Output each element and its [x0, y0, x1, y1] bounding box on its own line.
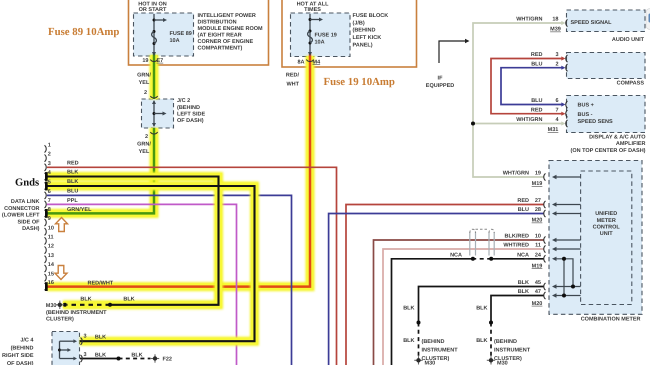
svg-text:PANEL): PANEL)	[353, 42, 373, 48]
svg-text:6: 6	[48, 189, 51, 195]
svg-text:OR START: OR START	[139, 7, 167, 13]
svg-text:(J/B): (J/B)	[353, 20, 365, 26]
svg-text:LEFT KICK: LEFT KICK	[353, 35, 382, 41]
svg-text:TIMES: TIMES	[304, 7, 321, 13]
svg-text:BLU: BLU	[67, 189, 78, 195]
ground M30 pin45	[414, 356, 422, 364]
svg-text:GRN/: GRN/	[137, 141, 151, 147]
svg-text:BLK: BLK	[80, 296, 91, 302]
display & A/C auto amplifier box	[567, 96, 646, 133]
wire WHT/GRN audio/speed-sens/meter pin19	[473, 23, 563, 177]
svg-text:3: 3	[83, 352, 86, 358]
svg-text:8: 8	[48, 207, 51, 213]
svg-text:28: 28	[535, 207, 541, 213]
svg-text:3: 3	[83, 333, 86, 339]
svg-text:BLK: BLK	[95, 353, 106, 359]
svg-text:WHT/GRN: WHT/GRN	[516, 17, 542, 23]
svg-text:M30: M30	[497, 360, 508, 365]
wire RED meter pin27	[346, 205, 544, 365]
svg-text:BLK: BLK	[67, 170, 78, 176]
svg-text:CLUSTER): CLUSTER)	[46, 317, 74, 323]
svg-text:INTELLIGENT POWER: INTELLIGENT POWER	[198, 13, 256, 19]
svg-text:SIDE OF: SIDE OF	[17, 219, 40, 225]
svg-text:YEL: YEL	[139, 149, 150, 155]
wire WHT/RED meter pin11	[383, 249, 544, 365]
svg-text:WHT/GRN: WHT/GRN	[503, 171, 529, 177]
svg-text:CONTROL: CONTROL	[593, 225, 621, 231]
svg-text:Fuse 19 10Amp: Fuse 19 10Amp	[324, 76, 395, 88]
svg-text:CORNER OF ENGINE: CORNER OF ENGINE	[198, 39, 254, 45]
svg-text:(BEHIND: (BEHIND	[11, 345, 34, 351]
svg-text:M31: M31	[548, 127, 559, 133]
svg-text:2: 2	[145, 134, 148, 140]
svg-text:METER: METER	[597, 218, 616, 224]
svg-text:7: 7	[48, 198, 51, 204]
svg-text:2: 2	[555, 61, 558, 67]
svg-text:(LOWER LEFT: (LOWER LEFT	[2, 213, 40, 219]
svg-text:47: 47	[535, 289, 541, 295]
ground M30 left	[56, 301, 64, 309]
svg-text:NCA: NCA	[450, 252, 462, 258]
svg-text:3: 3	[555, 52, 558, 58]
svg-text:IF: IF	[438, 76, 444, 82]
svg-text:BLK: BLK	[67, 179, 78, 185]
svg-text:(ON TOP CENTER OF DASH): (ON TOP CENTER OF DASH)	[571, 148, 646, 154]
junction dots	[108, 303, 112, 307]
svg-text:COMPASS: COMPASS	[617, 80, 645, 86]
svg-text:10: 10	[535, 234, 541, 240]
svg-text:GRN/YEL: GRN/YEL	[67, 207, 92, 213]
J/C4 internal connector	[59, 341, 61, 358]
svg-text:BLK: BLK	[476, 338, 487, 344]
wire RED DLC pin3	[47, 167, 337, 365]
fuse block box (orange)	[282, 0, 417, 67]
svg-text:AMPLIFIER: AMPLIFIER	[616, 141, 646, 147]
svg-text:WHT/GRN: WHT/GRN	[516, 117, 542, 123]
svg-text:45: 45	[535, 280, 541, 286]
junction connector J/C 4 box	[52, 332, 80, 365]
DLC black ticks pins 4,5,8,16	[45, 172, 48, 181]
ground F22	[151, 354, 159, 362]
fuse 89 dashed area	[134, 13, 194, 56]
svg-text:6: 6	[555, 98, 558, 104]
svg-text:PPL: PPL	[67, 198, 78, 204]
svg-text:WHT: WHT	[286, 81, 299, 87]
svg-text:9: 9	[48, 216, 51, 222]
svg-text:BLK: BLK	[518, 280, 529, 286]
svg-text:RED: RED	[531, 107, 543, 113]
svg-text:(BEHIND: (BEHIND	[177, 105, 200, 111]
svg-text:8A: 8A	[297, 59, 304, 65]
svg-text:BUS +: BUS +	[578, 103, 594, 109]
svg-text:M20: M20	[532, 301, 543, 307]
svg-text:J/C 2: J/C 2	[177, 98, 190, 104]
svg-text:14: 14	[48, 262, 55, 268]
wire BLU meter pin28	[329, 214, 544, 365]
audio/compass/amplifier pin connectors	[561, 21, 565, 25]
svg-text:10A: 10A	[315, 39, 325, 45]
svg-text:2: 2	[144, 90, 147, 96]
orange up arrow	[56, 218, 68, 232]
svg-text:BLU: BLU	[531, 61, 542, 67]
svg-text:DASH): DASH)	[22, 226, 40, 232]
svg-text:AUDIO UNIT: AUDIO UNIT	[612, 37, 645, 43]
svg-text:COMBINATION METER: COMBINATION METER	[581, 317, 641, 323]
svg-text:BUS -: BUS -	[578, 112, 593, 118]
svg-text:RED/WHT: RED/WHT	[88, 280, 114, 286]
combination meter pin arrows	[557, 176, 581, 178]
svg-text:MODULE ENGINE ROOM: MODULE ENGINE ROOM	[198, 26, 264, 32]
svg-text:M39: M39	[550, 27, 561, 33]
audio unit box	[567, 10, 646, 32]
svg-text:RED/: RED/	[286, 73, 300, 79]
svg-text:M30: M30	[46, 303, 57, 309]
svg-text:24: 24	[535, 252, 542, 258]
corner ui artifact	[646, 9, 650, 30]
wire RED/WHT fuse19 to DLC pin16	[47, 52, 310, 287]
svg-text:DISTRIBUTION: DISTRIBUTION	[198, 20, 237, 26]
svg-text:RED: RED	[67, 160, 79, 166]
svg-text:Fuse 89 10Amp: Fuse 89 10Amp	[48, 26, 119, 38]
svg-text:16: 16	[48, 280, 54, 286]
shielding symbol around BLK/RED and WHT/RED	[470, 232, 494, 256]
svg-text:RIGHT SIDE: RIGHT SIDE	[2, 353, 34, 359]
wire BLK meter pin47 to ground M30	[491, 296, 544, 323]
meter pin 24 NCA arrow and internal grounds	[557, 259, 574, 287]
svg-text:FUSE BLOCK: FUSE BLOCK	[353, 13, 389, 19]
svg-text:FUSE 89: FUSE 89	[170, 31, 192, 37]
svg-text:12: 12	[48, 244, 54, 250]
svg-text:M19: M19	[532, 181, 543, 187]
svg-text:(BEHIND: (BEHIND	[422, 339, 445, 345]
svg-text:YEL: YEL	[139, 80, 150, 86]
svg-text:19: 19	[142, 58, 148, 64]
fuse 89 element	[153, 14, 155, 52]
wire BLK DLC pin5 to J/C4 pin3	[47, 186, 255, 341]
svg-text:7: 7	[555, 107, 558, 113]
junction connector J/C 2 box	[142, 99, 174, 128]
svg-text:5: 5	[48, 180, 51, 186]
svg-text:INSTRUMENT: INSTRUMENT	[422, 348, 459, 354]
svg-text:(AT EIGHT REAR: (AT EIGHT REAR	[198, 33, 242, 39]
svg-text:FUSE 19: FUSE 19	[315, 32, 337, 38]
fuse 19 element	[309, 14, 311, 52]
svg-text:BLK: BLK	[123, 296, 134, 302]
svg-text:11: 11	[48, 235, 54, 241]
svg-text:E7: E7	[157, 58, 164, 64]
svg-text:OF DASH): OF DASH)	[7, 361, 34, 365]
wire RED compass pin3 to amplifier pin7	[491, 59, 563, 114]
svg-text:27: 27	[535, 198, 541, 204]
data link connector pins	[45, 145, 47, 152]
compass box	[567, 53, 646, 79]
svg-text:RED: RED	[517, 198, 529, 204]
IPDM fuse box (orange)	[129, 0, 269, 65]
svg-text:BLK: BLK	[403, 306, 414, 312]
combination meter outer box	[549, 161, 642, 315]
svg-text:18: 18	[552, 17, 558, 23]
svg-text:RED: RED	[531, 52, 543, 58]
svg-text:COMPARTMENT): COMPARTMENT)	[198, 46, 243, 52]
svg-text:F22: F22	[163, 357, 172, 363]
svg-text:2: 2	[48, 152, 51, 158]
wire BLK J/C4 pin3 to ground F22	[80, 358, 119, 360]
wire BLK meter pin45 to ground M30	[419, 287, 544, 323]
wire GRN/YEL fuse89 to J/C2 to DLC pin8	[47, 52, 154, 213]
svg-text:11: 11	[535, 243, 541, 249]
wire BLU DLC pin6	[47, 195, 292, 365]
wire BLU compass pin2 to amplifier pin6	[501, 68, 563, 105]
svg-text:NCA: NCA	[517, 252, 529, 258]
svg-text:13: 13	[48, 253, 54, 259]
unified meter control unit box	[581, 171, 632, 305]
highlight BLK ground circuits	[47, 177, 219, 305]
svg-text:M19: M19	[532, 263, 543, 269]
highlight GRN/YEL circuit	[47, 55, 154, 213]
svg-text:(BEHIND: (BEHIND	[494, 339, 517, 345]
svg-text:BLK: BLK	[518, 289, 529, 295]
wire BLK/RED meter pin10	[374, 240, 544, 365]
svg-text:GRN/: GRN/	[137, 73, 151, 79]
ground M30 pin47	[487, 356, 495, 364]
svg-text:BLK: BLK	[95, 335, 106, 341]
svg-text:BLK: BLK	[403, 338, 414, 344]
svg-text:M20: M20	[532, 218, 543, 224]
J/C2 internal arrows	[153, 101, 155, 126]
svg-text:(BEHIND: (BEHIND	[353, 28, 376, 34]
svg-text:3: 3	[48, 161, 51, 167]
svg-text:INSTRUMENT: INSTRUMENT	[494, 348, 531, 354]
svg-text:OF DASH): OF DASH)	[177, 118, 204, 124]
svg-text:15: 15	[48, 271, 54, 277]
svg-text:DISPLAY & A/C AUTO: DISPLAY & A/C AUTO	[589, 135, 646, 141]
wire NCA meter pin24	[491, 258, 543, 260]
svg-text:BLK: BLK	[476, 306, 487, 312]
orange down arrow	[55, 266, 67, 280]
wire BLK DLC pin4 to ground M30	[47, 177, 219, 305]
svg-text:WHT/RED: WHT/RED	[503, 243, 529, 249]
fuse 19 dashed area	[291, 13, 351, 57]
svg-text:M30: M30	[425, 360, 436, 365]
svg-text:10A: 10A	[170, 38, 180, 44]
svg-text:19: 19	[535, 171, 541, 177]
svg-text:10: 10	[48, 225, 54, 231]
svg-text:UNIFIED: UNIFIED	[595, 211, 617, 217]
svg-text:(BEHIND INSTRUMENT: (BEHIND INSTRUMENT	[46, 310, 107, 316]
svg-text:BLK/RED: BLK/RED	[505, 234, 529, 240]
svg-text:UNIT: UNIT	[600, 231, 613, 237]
svg-text:SPEED SENS: SPEED SENS	[578, 119, 613, 125]
svg-text:BLU: BLU	[518, 207, 529, 213]
svg-text:EQUIPPED: EQUIPPED	[426, 83, 454, 89]
wire PPL DLC pin7	[47, 204, 237, 365]
svg-text:SPEED SIGNAL: SPEED SIGNAL	[571, 20, 613, 26]
IF EQUIPPED pointer	[439, 41, 466, 63]
svg-text:DATA LINK: DATA LINK	[11, 199, 40, 205]
svg-text:CONNECTOR: CONNECTOR	[4, 206, 39, 212]
svg-text:BLU: BLU	[531, 98, 542, 104]
wire BLK dashed segment to M30 ground	[67, 304, 110, 306]
svg-text:LEFT SIDE: LEFT SIDE	[177, 112, 205, 118]
svg-text:Gnds: Gnds	[15, 177, 39, 188]
svg-text:M4: M4	[313, 59, 322, 65]
svg-text:1: 1	[48, 143, 51, 149]
svg-text:BLK: BLK	[131, 353, 142, 359]
svg-text:J/C 4: J/C 4	[20, 338, 34, 344]
